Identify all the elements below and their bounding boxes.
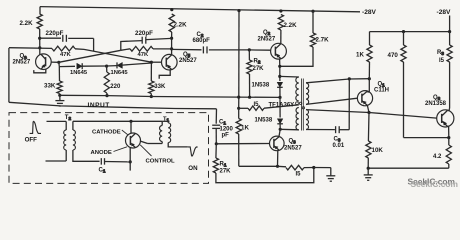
- capacitor C1 1200pF: [212, 109, 220, 144]
- label Qa: [20, 54, 28, 60]
- label 4.2: [433, 154, 442, 160]
- resistor R3 15: [447, 32, 452, 62]
- resistor 33K (left base bias): [57, 81, 62, 95]
- wire: 1K to Q3 emitter: [239, 134, 278, 166]
- node: bias line right end: [278, 96, 281, 99]
- label R1: [220, 162, 227, 168]
- label 10K: [372, 147, 384, 154]
- svg-text:CONTROL: CONTROL: [146, 158, 176, 164]
- wire: T2 right-bottom to C1 (anode line): [73, 150, 100, 161]
- label Q5: [183, 52, 191, 58]
- resistor 1K (Q1 collector load): [367, 45, 372, 62]
- svg-text:2N1358: 2N1358: [425, 101, 447, 107]
- SCR device (inset): [126, 133, 141, 148]
- wire: outer-left feedback wire: [8, 48, 10, 102]
- wire: secondary bottom line: [306, 129, 335, 131]
- diode 1N538 (upper): [277, 82, 283, 97]
- transistor Q5 2N527: [162, 54, 178, 70]
- label -28V (left rail): [362, 9, 377, 16]
- transformer TF1A36Y primary lower winding: [296, 108, 299, 131]
- svg-text:INPUT: INPUT: [88, 102, 110, 109]
- resistor 1K (to rail): [236, 119, 241, 135]
- svg-text:47K: 47K: [138, 52, 150, 58]
- svg-text:1N538: 1N538: [252, 83, 270, 89]
- node: Qa base junction: [57, 61, 60, 64]
- svg-text:220pF: 220pF: [135, 30, 153, 37]
- transistor Q1 C11H: [357, 91, 372, 106]
- wire: right -28V drop: [449, 16, 451, 32]
- node: rail junction dots: [170, 8, 314, 13]
- wire: Q2 emitter column: [279, 59, 281, 81]
- wire: secondary top to Q1 collector node: [306, 79, 369, 83]
- svg-text:I5: I5: [296, 172, 302, 178]
- resistor 15 (primary tap, I5): [239, 105, 299, 111]
- node: right bus dots: [402, 30, 451, 33]
- node: 33K-right bottom dot: [150, 95, 153, 98]
- wire: INPUT line: [9, 102, 217, 109]
- svg-text:TF1A36Y: TF1A36Y: [269, 102, 295, 108]
- svg-text:-28V: -28V: [362, 9, 377, 16]
- leader anode: [114, 147, 128, 152]
- watermark SeekIC.com: [408, 176, 458, 189]
- svg-text:I5: I5: [254, 102, 260, 108]
- svg-text:2.2K: 2.2K: [284, 22, 298, 29]
- wire: Q6 emitter lead: [448, 126, 450, 138]
- wire: R1 bottom return: [216, 168, 314, 183]
- svg-text:470: 470: [388, 52, 399, 59]
- wire: -28V supply rail: [40, 7, 360, 14]
- wire: T1 right-bottom lead: [168, 143, 188, 147]
- svg-text:220pF: 220pF: [46, 30, 64, 37]
- label 33K right: [154, 84, 166, 90]
- transformer core: [302, 79, 304, 131]
- label 2N527 (Q5): [179, 58, 197, 64]
- resistor 10K: [366, 141, 371, 168]
- label -28V (right): [437, 9, 452, 16]
- svg-text:1N538: 1N538: [255, 118, 273, 124]
- node: Q5 base junction: [150, 61, 153, 64]
- wire: collector-diode line to primary bottom: [280, 128, 299, 131]
- capacitor C2 680pF: [172, 46, 250, 53]
- resistor 470: [401, 32, 406, 62]
- wire: Q3 collector lead: [279, 129, 280, 136]
- transistor Qa 2N527: [36, 54, 52, 70]
- wire: T2 left-top lead: [47, 121, 67, 130]
- label 220pF left: [46, 30, 64, 37]
- node: 1K-line dots: [237, 96, 240, 110]
- capacitor 220pF (right speed-up): [121, 37, 172, 51]
- svg-text:1N645: 1N645: [70, 70, 88, 76]
- label 2.2K left: [20, 20, 34, 27]
- transformer TF1A36Y secondary upper winding: [306, 83, 309, 105]
- node: R2 bottom dot: [248, 96, 251, 99]
- label 27K (R2): [253, 66, 265, 72]
- resistor 33K (right base bias): [149, 62, 154, 96]
- node: Q3 base junction: [215, 142, 218, 145]
- resistor R2 27K: [247, 50, 252, 97]
- resistor 47K (left cross-coupling): [9, 46, 84, 51]
- node: Q6 emitter dot: [447, 136, 450, 139]
- wire: emitter return line: [368, 167, 449, 169]
- svg-text:-28V: -28V: [437, 9, 452, 16]
- wire: rail drop to 1K: [238, 11, 240, 109]
- label 1N538 upper: [252, 83, 270, 89]
- wire: 470 bottom to Q6 emitter line: [404, 62, 449, 138]
- label C11H: [374, 88, 389, 94]
- inset dashed border: [9, 113, 209, 184]
- label 470: [388, 52, 399, 59]
- svg-text:0.01: 0.01: [333, 143, 345, 149]
- node: Q3 emitter dot: [276, 165, 279, 168]
- svg-text:C3: C3: [334, 137, 341, 143]
- svg-text:Q3: Q3: [289, 139, 297, 145]
- svg-text:ON: ON: [188, 165, 198, 172]
- wire: Q5 emitter loop: [159, 69, 170, 79]
- transformer polarity marks: [299, 102, 304, 109]
- wire: C3 feedback riser: [348, 79, 350, 130]
- wire: Qa base to divider: [51, 62, 59, 81]
- resistor 2.2K (third, Q2 collector load): [278, 15, 283, 31]
- wire: 2.7K top to rail: [312, 11, 314, 33]
- label 220: [110, 84, 121, 90]
- wire: Q1 emitter to Q6 base: [369, 113, 437, 119]
- resistor R1 27K: [213, 144, 218, 173]
- svg-text:33K: 33K: [44, 83, 56, 90]
- label CATHODE: [92, 130, 121, 136]
- node: Q2 emitter dots: [278, 65, 281, 78]
- svg-text:C1: C1: [219, 120, 226, 126]
- diode 1N645 (left steering): [59, 63, 106, 69]
- svg-text:C1: C1: [99, 167, 106, 173]
- svg-text:Q2: Q2: [263, 30, 271, 36]
- svg-text:27K: 27K: [253, 66, 265, 72]
- label 47K right: [138, 52, 150, 58]
- leader cathode: [122, 130, 128, 135]
- wire: 2.2K to Qa collector node: [39, 29, 41, 55]
- wire: anode lead: [129, 148, 131, 162]
- transformer T2 left winding: [64, 130, 67, 150]
- svg-text:R2: R2: [254, 59, 261, 65]
- capacitor 220pF (left speed-up): [40, 35, 94, 52]
- wire: cross-coupling diagonal left-to-right: [84, 49, 151, 62]
- wire: Q1 emitter lead: [367, 105, 369, 112]
- label 2N527 (Qa): [13, 59, 31, 65]
- label Q1: [378, 82, 386, 88]
- node: cathode junction: [129, 120, 132, 123]
- resistor 47K (right cross-coupling): [121, 46, 172, 51]
- node: 33K-left bottom dot: [58, 94, 61, 97]
- wire: C2 line to Q2 base: [249, 49, 270, 51]
- transistor Q6 2N1358: [437, 110, 454, 127]
- label C2: [197, 32, 204, 38]
- transformer T1 left winding: [160, 126, 163, 142]
- wire: Q1 emitter drop to 10K: [367, 113, 370, 142]
- transistor Q3 2N527: [270, 136, 285, 151]
- svg-text:1K: 1K: [356, 52, 364, 59]
- resistor 2.2K (second, Q5 collector load): [169, 14, 174, 32]
- svg-text:R1: R1: [220, 162, 227, 168]
- node: emitter-ground dot: [312, 166, 315, 169]
- label 2.2K third: [284, 22, 298, 29]
- transformer T2 label: [65, 115, 72, 121]
- svg-text:SeekIC.com: SeekIC.com: [411, 179, 458, 189]
- label 15 (R3): [439, 58, 445, 64]
- node A: Qa collector dots: [38, 37, 41, 50]
- label I5 (primary): [254, 102, 260, 108]
- wire: 1K top from I5 node: [238, 108, 240, 118]
- wire: primary top to Q2 emitter node: [280, 75, 299, 78]
- svg-text:2.2K: 2.2K: [20, 20, 34, 27]
- node: Q3 collector junction: [279, 128, 282, 131]
- wire: Q3 base line: [216, 143, 269, 145]
- wire: T2 right-top lead (cathode line): [73, 121, 162, 130]
- transformer TF1A36Y primary upper winding: [296, 77, 299, 101]
- wire: bias return line: [60, 95, 280, 97]
- node: 220 bottom dot: [105, 94, 108, 97]
- transistor Q2 2N527: [271, 43, 287, 59]
- label 2N527 (Q3): [284, 145, 302, 151]
- label 1N645 right: [111, 70, 129, 76]
- capacitor C3 0.01: [336, 126, 350, 133]
- diode 1N645 (right steering): [107, 62, 152, 68]
- label 2.7K: [316, 37, 330, 44]
- transformer T1 label (inset): [163, 116, 170, 122]
- label 1K (middle): [241, 125, 249, 132]
- label 1200 (C1): [220, 127, 234, 133]
- label Q2: [263, 30, 271, 36]
- wire: diode column through bus: [279, 97, 281, 117]
- svg-text:OFF: OFF: [25, 137, 38, 144]
- svg-text:CATHODE: CATHODE: [92, 130, 121, 136]
- svg-text:220: 220: [110, 84, 121, 90]
- transformer T2 right winding: [73, 130, 76, 150]
- transformer T1 right winding: [168, 123, 170, 143]
- wire: T1 right-top riser: [162, 121, 168, 123]
- leader control: [140, 145, 151, 156]
- svg-text:2N527: 2N527: [258, 37, 276, 43]
- label C1 (inset): [99, 167, 106, 173]
- svg-text:1N645: 1N645: [111, 70, 129, 76]
- resistor 2.2K (left, R-Qa collector load): [37, 14, 42, 29]
- resistor 15 (Q3 emitter, I5): [278, 165, 314, 170]
- wire: right supply bus: [370, 32, 450, 45]
- svg-text:R3: R3: [437, 50, 444, 56]
- label ANODE: [91, 150, 112, 156]
- svg-text:10K: 10K: [372, 147, 384, 154]
- label 1K (right): [356, 52, 364, 59]
- svg-text:33K: 33K: [154, 84, 166, 90]
- resistor 220 (input coupling): [104, 66, 109, 96]
- label 1N538 lower: [255, 118, 273, 124]
- wire: T1 left-bottom lead: [148, 142, 163, 144]
- label 33K left: [44, 83, 56, 90]
- wire: 2.7K bottom to Q2 emitter: [280, 47, 313, 66]
- wire: cross-coupling diagonal right-to-left: [59, 50, 121, 62]
- transformer TF1A36Y secondary lower winding: [306, 110, 309, 130]
- svg-text:27K: 27K: [220, 169, 232, 175]
- label 2N1358: [425, 101, 447, 107]
- label 220pF right: [135, 30, 153, 37]
- node: Q1 emitter junction: [367, 111, 370, 114]
- diode 1N538 (lower): [277, 119, 283, 130]
- label TF1A36Y: [269, 102, 299, 109]
- wire: T1 left-top riser: [161, 121, 163, 125]
- label Q6: [433, 95, 441, 101]
- svg-text:2.7K: 2.7K: [316, 37, 330, 44]
- wire: Q3 emitter lead: [277, 150, 279, 166]
- wire: to ground: [314, 167, 331, 169]
- wire: secondary mid-lower to Q1 emitter node: [306, 110, 369, 113]
- svg-text:2N527: 2N527: [284, 145, 302, 151]
- label ON: [188, 165, 198, 172]
- label 2.2K second: [174, 22, 188, 29]
- capacitor C1 (inset): [101, 158, 130, 165]
- node: 10K bottom dot: [367, 167, 370, 170]
- label CONTROL: [146, 158, 176, 164]
- node: steering common (220 top): [105, 65, 108, 68]
- label 2N527 (Q2): [258, 37, 276, 43]
- ground (under 10K): [364, 168, 373, 180]
- ground (Q3 emitter): [326, 168, 335, 182]
- label C1: [219, 120, 226, 126]
- svg-text:pF: pF: [222, 133, 230, 139]
- node: R2 top dot: [248, 48, 251, 51]
- svg-text:4.2: 4.2: [433, 154, 442, 160]
- label R3: [437, 50, 444, 56]
- label pF (C1): [222, 133, 230, 139]
- label Q3: [289, 139, 297, 145]
- svg-text:C11H: C11H: [374, 88, 389, 94]
- wire: R3 to Q6 collector: [448, 62, 451, 111]
- label C3: [334, 137, 341, 143]
- wire: 1K bottom to collector node: [368, 62, 370, 79]
- svg-text:T2: T2: [65, 115, 72, 121]
- label 0.01 (C3): [333, 143, 345, 149]
- svg-text:I5: I5: [439, 58, 445, 64]
- wire: Q1 collector lead: [368, 79, 370, 93]
- svg-text:680pF: 680pF: [193, 38, 211, 44]
- label INPUT: [88, 102, 110, 109]
- label 1N645 left: [70, 70, 88, 76]
- label OFF: [25, 137, 38, 144]
- label R2: [254, 59, 261, 65]
- wire: 2.2K to Q2 collector: [280, 30, 282, 44]
- svg-text:47K: 47K: [60, 52, 72, 58]
- waveform OFF pulse: [30, 121, 41, 133]
- svg-text:1K: 1K: [241, 125, 249, 132]
- ground (left, under 33K): [55, 95, 64, 106]
- label I5 (emitter): [296, 172, 302, 178]
- label 27K (R1): [220, 169, 232, 175]
- wire: 2.2K to Q5 collector node: [171, 32, 173, 55]
- wire: secondary mid-upper to Q1 base: [306, 98, 357, 104]
- resistor 4.2: [446, 138, 451, 169]
- label 680pF: [193, 38, 211, 44]
- resistor 2.7K: [310, 33, 315, 47]
- svg-text:ANODE: ANODE: [91, 150, 112, 156]
- waveform ON pulse: [188, 147, 198, 156]
- node: secondary top dots: [348, 77, 371, 80]
- svg-text:2N527: 2N527: [13, 59, 31, 65]
- node: Q5 collector dots: [170, 37, 173, 51]
- wire: Qa emitter loop: [34, 69, 46, 73]
- wire: cathode lead: [130, 121, 132, 133]
- wire: Q5 base lead: [151, 61, 161, 63]
- wire: T2 left-bottom lead: [46, 150, 67, 161]
- svg-text:2.2K: 2.2K: [174, 22, 188, 29]
- label 47K left: [60, 52, 72, 58]
- wire: control diagonal from T1: [140, 141, 148, 144]
- node: anode junction: [129, 160, 132, 170]
- svg-text:2N527: 2N527: [179, 58, 197, 64]
